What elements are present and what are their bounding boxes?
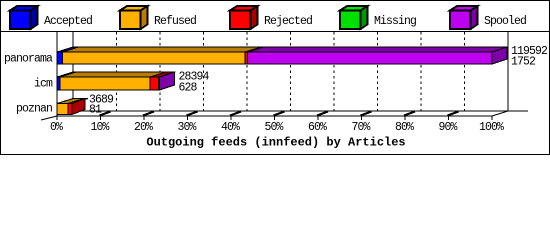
- bar panorama: blue front face: [57, 52, 63, 64]
- tick 60% below axis: [317, 116, 319, 120]
- legend cube Spooled: [450, 6, 478, 29]
- gridline 20% (dashed, back plane): [159, 32, 161, 111]
- bar poznan: red front face: [68, 104, 72, 115]
- x-axis origin depth diagonal: [41, 116, 57, 120]
- legend cube Refused: [120, 6, 148, 29]
- legend cube Missing: [340, 6, 368, 29]
- bar panorama: purple right end face: [492, 47, 507, 64]
- tick 90% depth diagonal: [448, 112, 459, 116]
- gridline 10% (dashed, back plane): [116, 32, 118, 111]
- bar icm: purple right end face: [160, 72, 175, 90]
- gridline 70% (dashed, back plane): [377, 32, 379, 111]
- tick 40% depth diagonal: [230, 112, 241, 116]
- svg-text:0%: 0%: [50, 121, 63, 134]
- bar panorama: red front face: [245, 52, 248, 64]
- x-axis front line: [57, 115, 492, 117]
- bar panorama: purple top face: [248, 47, 509, 52]
- bar poznan: red top face: [68, 99, 88, 104]
- bar icm: orange front face: [60, 77, 150, 90]
- svg-text:Accepted: Accepted: [44, 15, 92, 28]
- bar panorama: blue top face: [57, 47, 79, 52]
- bar icm: blue front face: [57, 77, 60, 90]
- svg-text:90%: 90%: [438, 121, 457, 134]
- tick 30% depth diagonal: [187, 112, 198, 116]
- tick 10% below axis: [100, 116, 102, 120]
- bar panorama: orange front face: [63, 52, 246, 64]
- bar icm: red top face: [150, 72, 175, 77]
- tick 100% below axis: [491, 116, 493, 120]
- bar poznan: orange front face: [57, 104, 68, 115]
- svg-text:10%: 10%: [90, 121, 109, 134]
- y-axis line: [56, 32, 58, 120]
- svg-text:poznan: poznan: [16, 103, 52, 116]
- x-axis 100% depth diagonal: [492, 111, 508, 116]
- gridline 40% (dashed, back plane): [246, 32, 248, 111]
- tick 90% below axis: [448, 116, 450, 120]
- gridline 0% (solid, back plane): [72, 32, 74, 111]
- svg-text:80%: 80%: [395, 121, 414, 134]
- x-axis back line: [73, 110, 528, 112]
- tick 60% depth diagonal: [317, 112, 328, 116]
- bar poznan: orange top face: [57, 99, 84, 104]
- svg-text:Spooled: Spooled: [484, 15, 526, 28]
- bar icm: purple top face: [159, 72, 176, 77]
- svg-text:100%: 100%: [479, 121, 504, 134]
- svg-text:81: 81: [89, 104, 102, 117]
- legend separator line: [0, 31, 550, 33]
- tick 80% depth diagonal: [404, 112, 415, 116]
- svg-text:20%: 20%: [134, 121, 153, 134]
- svg-text:50%: 50%: [264, 121, 283, 134]
- tick 50% below axis: [274, 116, 276, 120]
- svg-text:Rejected: Rejected: [264, 15, 312, 28]
- svg-text:Outgoing feeds (innfeed) by Ar: Outgoing feeds (innfeed) by Articles: [146, 136, 405, 150]
- tick 80% below axis: [404, 116, 406, 120]
- gridline 100% (solid, back plane / plot right edge): [507, 32, 509, 111]
- tick 50% depth diagonal: [274, 112, 285, 116]
- gridline 80% (dashed, back plane): [420, 32, 422, 111]
- gridline 50% (dashed, back plane): [290, 32, 292, 111]
- tick 20% below axis: [143, 116, 145, 120]
- bar panorama: orange top face: [63, 47, 262, 52]
- legend cube Rejected: [230, 6, 258, 29]
- svg-text:1752: 1752: [511, 55, 536, 68]
- bar poznan: red right end face: [72, 99, 85, 115]
- gridline 60% (dashed, back plane): [333, 32, 335, 111]
- svg-text:Refused: Refused: [154, 15, 196, 28]
- tick 10% depth diagonal: [100, 112, 111, 116]
- tick 70% below axis: [361, 116, 363, 120]
- bar icm: purple front face: [159, 77, 160, 90]
- svg-text:icm: icm: [34, 78, 53, 91]
- legend cube Accepted: [10, 6, 38, 29]
- svg-text:30%: 30%: [177, 121, 196, 134]
- image border: [1, 1, 550, 155]
- tick 30% below axis: [187, 116, 189, 120]
- svg-text:Missing: Missing: [374, 15, 416, 28]
- bar icm: orange top face: [60, 72, 166, 77]
- tick 70% depth diagonal: [361, 112, 372, 116]
- gridline 30% (dashed, back plane): [203, 32, 205, 111]
- gridline 90% (dashed, back plane): [464, 32, 466, 111]
- svg-text:628: 628: [179, 81, 198, 94]
- tick 20% depth diagonal: [143, 112, 154, 116]
- svg-text:60%: 60%: [308, 121, 327, 134]
- svg-text:70%: 70%: [351, 121, 370, 134]
- tick 40% below axis: [230, 116, 232, 120]
- bar icm: blue top face: [57, 72, 76, 77]
- bar panorama: red top face: [245, 47, 264, 52]
- bar panorama: purple front face: [248, 52, 493, 64]
- svg-text:panorama: panorama: [4, 53, 53, 66]
- bar icm: red front face: [150, 77, 159, 90]
- svg-text:40%: 40%: [221, 121, 240, 134]
